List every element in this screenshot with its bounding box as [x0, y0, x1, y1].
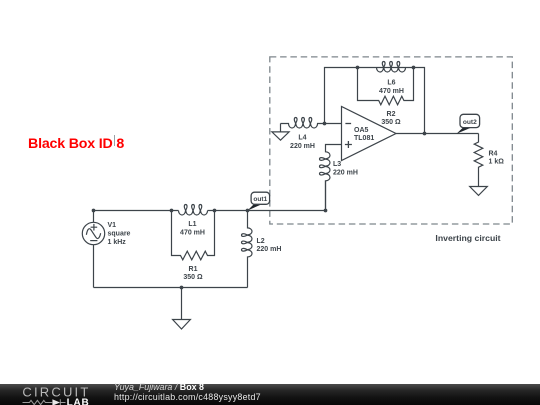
- svg-text:L6: L6: [387, 80, 395, 87]
- node out1 flag: [248, 192, 270, 210]
- wire out1 to L3 bottom: [248, 181, 326, 211]
- svg-text:L4: L4: [298, 135, 306, 142]
- inductor L6: [377, 62, 406, 73]
- junction inverting input: [323, 122, 327, 126]
- svg-text:L1: L1: [188, 221, 196, 228]
- inductor L4: [281, 118, 325, 129]
- wire top-left (V1 to out1 node): [94, 210, 248, 212]
- inductor L1: [172, 205, 215, 216]
- svg-text:470 mH: 470 mH: [379, 88, 404, 95]
- footer bar: [0, 384, 540, 405]
- svg-text:R1: R1: [189, 266, 198, 273]
- junction V1 top: [92, 209, 96, 213]
- junction output node: [423, 132, 427, 136]
- text caret: [114, 135, 115, 147]
- inductor L2: [242, 211, 253, 288]
- svg-text:350 Ω: 350 Ω: [183, 274, 203, 281]
- svg-text:1 kΩ: 1 kΩ: [489, 159, 505, 166]
- wire op-amp output: [396, 133, 479, 135]
- svg-text:R2: R2: [387, 111, 396, 118]
- resistor R2: [358, 68, 414, 105]
- dashed subcircuit box: [270, 57, 513, 224]
- ground (R4): [470, 187, 488, 196]
- wire bottom return: [94, 287, 248, 289]
- op-amp OA5: [342, 107, 397, 161]
- ground (main): [173, 288, 191, 330]
- junction node out1: [246, 209, 250, 213]
- svg-text:L2: L2: [257, 238, 265, 245]
- svg-text:220 mH: 220 mH: [257, 246, 282, 253]
- svg-text:LAB: LAB: [67, 398, 90, 405]
- ground (L4): [272, 124, 289, 141]
- resistor R4: [474, 134, 483, 187]
- svg-text:square: square: [108, 231, 131, 238]
- red annotation text: [28, 136, 124, 152]
- svg-text:1 kHz: 1 kHz: [108, 239, 127, 246]
- node out2 flag: [457, 114, 480, 134]
- junction L1/R1 left: [170, 209, 174, 213]
- voltage source V1: [82, 222, 104, 244]
- wire feedback riser: [325, 68, 425, 134]
- junction feedback left: [356, 66, 360, 70]
- svg-text:out2: out2: [463, 119, 477, 126]
- wire V1 leads: [93, 211, 95, 288]
- resistor R1: [172, 211, 215, 260]
- wire minus node to op-amp: [325, 123, 342, 125]
- CircuitLab logo: [22, 386, 102, 405]
- svg-text:L3: L3: [333, 161, 341, 168]
- Inverting circuit label: [404, 233, 532, 243]
- svg-text:V1: V1: [108, 222, 117, 229]
- svg-text:R4: R4: [489, 150, 498, 157]
- svg-text:470 mH: 470 mH: [180, 229, 205, 236]
- junction L3 bottom: [324, 209, 328, 213]
- svg-text:OA5: OA5: [354, 127, 369, 134]
- svg-text:350 Ω: 350 Ω: [381, 119, 401, 126]
- svg-text:220 mH: 220 mH: [290, 143, 315, 150]
- svg-text:out1: out1: [253, 196, 267, 203]
- svg-text:TL081: TL081: [354, 135, 374, 142]
- inductor L3: [320, 145, 342, 211]
- svg-text:220 mH: 220 mH: [333, 169, 358, 176]
- junction ground tap: [180, 286, 184, 290]
- junction feedback right: [412, 66, 416, 70]
- junction L1/R1 right: [213, 209, 217, 213]
